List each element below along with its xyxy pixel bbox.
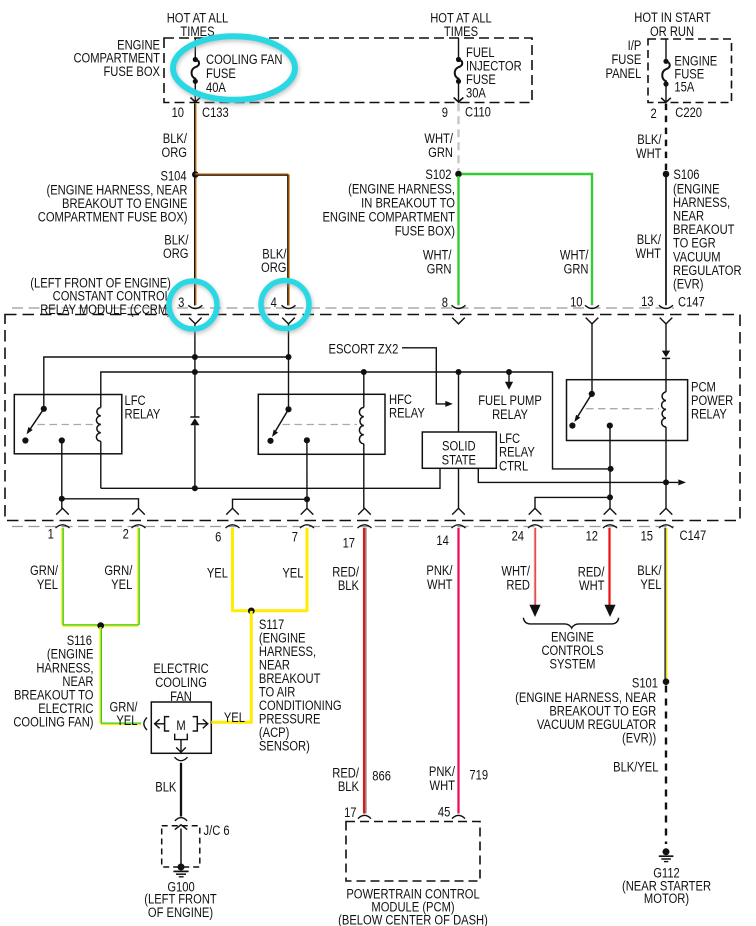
svg-text:RELAY: RELAY xyxy=(691,406,727,421)
HFC relay box xyxy=(258,394,385,454)
svg-text:J/C 6: J/C 6 xyxy=(204,823,230,838)
label RED/BLK (at PCM) xyxy=(332,765,359,794)
label LFC RELAY CTRL xyxy=(499,431,535,474)
I/P fuse panel box (dashed outline) xyxy=(648,39,732,103)
svg-text:PANEL: PANEL xyxy=(605,66,641,81)
HFC relay switch xyxy=(267,406,310,444)
junction HFC coil/bus2 xyxy=(361,369,367,375)
svg-text:15A: 15A xyxy=(674,79,694,94)
label GRN/YEL (pin 1) xyxy=(30,563,58,592)
label S101 xyxy=(632,675,658,690)
label S104 xyxy=(160,168,186,183)
svg-text:24: 24 xyxy=(512,528,524,543)
wire PNK/WHT pin 14 to PCM pin 45 xyxy=(457,528,459,814)
label S117 xyxy=(259,617,284,632)
svg-text:ESCORT ZX2: ESCORT ZX2 xyxy=(329,341,399,356)
svg-text:866: 866 xyxy=(372,768,391,783)
svg-text:FUSE: FUSE xyxy=(206,66,236,81)
label J/C 6 xyxy=(204,823,230,838)
label ELECTRIC COOLING FAN xyxy=(153,661,208,704)
wire BLK/YEL S101 to G112 (dashed) xyxy=(665,686,667,845)
label G112 description xyxy=(622,878,711,906)
svg-text:C110: C110 xyxy=(465,104,491,119)
fuel pump relay feed arrow xyxy=(505,372,513,390)
junction fuel-pump/bus2 xyxy=(506,369,512,375)
highlight circle (pin 4) xyxy=(261,281,309,329)
label S102 description xyxy=(322,181,455,238)
PCM pin 45 socket xyxy=(452,815,465,818)
svg-text:WHT: WHT xyxy=(636,246,662,261)
svg-text:RELAY: RELAY xyxy=(389,405,425,420)
svg-text:BLK: BLK xyxy=(338,578,360,593)
svg-text:RED: RED xyxy=(506,577,530,592)
svg-text:13: 13 xyxy=(641,294,653,309)
connector C147 pin 3 socket xyxy=(188,305,202,308)
wire YEL pin 6 to S117 xyxy=(231,528,234,612)
wire BLK/ORG S104 branch horizontal xyxy=(195,173,288,176)
svg-text:YEL: YEL xyxy=(207,566,228,581)
label PNK/WHT (pin 14) xyxy=(426,563,453,592)
label pin 6 xyxy=(215,530,221,545)
svg-text:14: 14 xyxy=(436,533,448,548)
node S116 xyxy=(97,622,104,629)
electric cooling fan box xyxy=(151,702,211,753)
svg-text:RELAY: RELAY xyxy=(125,406,161,421)
connector C147 pin 10 socket xyxy=(585,305,599,308)
label pin 8 xyxy=(442,295,448,310)
wire pin 4 into module xyxy=(288,324,290,409)
fuel injector fuse 30A xyxy=(454,38,464,102)
junction pin4/bus1 xyxy=(286,354,292,360)
svg-text:30A: 30A xyxy=(466,85,486,100)
connector C147 pin 14 terminal xyxy=(452,508,465,514)
svg-text:C147: C147 xyxy=(680,528,707,543)
wire BLK cooling fan to J/C 6 xyxy=(175,757,188,816)
ground G100 xyxy=(173,864,188,877)
svg-text:COOLING FAN: COOLING FAN xyxy=(206,52,282,67)
wire BLK/WHT C220 to S106 (dashed) xyxy=(665,104,667,171)
svg-text:CTRL: CTRL xyxy=(499,458,528,473)
connector C147 pin 3 terminal xyxy=(189,318,202,324)
label BLK/ORG (pin 4) xyxy=(261,246,287,275)
label HFC RELAY xyxy=(389,392,425,421)
PCM pin 17 socket xyxy=(358,815,371,818)
PCM power relay coil xyxy=(662,392,666,427)
label BLK/YEL (pin 15) xyxy=(637,563,662,592)
HFC relay coil xyxy=(359,372,363,444)
label pin 13 xyxy=(641,294,653,309)
svg-text:RELAY MODULE (CCRM): RELAY MODULE (CCRM) xyxy=(40,302,171,317)
solid state box U1 xyxy=(422,432,496,468)
svg-text:SENSOR): SENSOR) xyxy=(259,738,310,753)
label circuit 866 xyxy=(372,768,391,783)
label ESCORT ZX2 xyxy=(329,341,399,356)
junction pin24 branch xyxy=(607,494,613,500)
cooling fan left connector xyxy=(144,718,147,731)
svg-text:(EVR)): (EVR)) xyxy=(622,730,656,745)
wire HFC relay output to pins 6 and 7 xyxy=(233,440,308,508)
svg-text:3: 3 xyxy=(178,295,184,310)
label G100 xyxy=(167,879,194,894)
label pin 3 xyxy=(178,295,184,310)
label PCM POWER RELAY xyxy=(691,379,733,421)
wire WHT/RED pin 24 to engine controls xyxy=(529,528,540,617)
wire BLK/ORG C133 to S104 to pin 3 xyxy=(193,103,196,305)
connector C147 pin 6 socket xyxy=(226,525,240,528)
svg-text:ORG: ORG xyxy=(163,246,188,261)
PCM power relay switch xyxy=(569,391,613,429)
connector C147 pin 13 socket xyxy=(659,305,673,308)
svg-text:4: 4 xyxy=(271,295,277,310)
label circuit 719 xyxy=(469,767,488,782)
connector C147 pin 10 terminal xyxy=(586,318,599,324)
svg-text:10: 10 xyxy=(172,105,184,120)
label G100 description xyxy=(144,891,217,920)
label WHT/RED (pin 24) xyxy=(501,563,530,592)
svg-text:YEL: YEL xyxy=(282,566,303,581)
wire branch to pin 24 xyxy=(535,497,610,508)
label YEL (pin 7) xyxy=(282,566,303,581)
svg-text:TIMES: TIMES xyxy=(444,24,478,39)
ESCORT ZX2 callout arrow xyxy=(402,348,453,407)
label COOLING FAN FUSE 40A xyxy=(206,52,282,96)
svg-text:719: 719 xyxy=(469,767,488,782)
svg-text:GRN: GRN xyxy=(564,261,589,276)
wire BLK/ORG branch down to pin 4 xyxy=(287,175,290,306)
svg-text:YEL: YEL xyxy=(37,577,58,592)
label pin 4 xyxy=(271,295,277,310)
label pin 14 xyxy=(436,533,448,548)
HFC relay link (dashed) xyxy=(283,424,358,426)
label pin 9 C110 xyxy=(442,104,491,120)
label G112 xyxy=(653,865,680,880)
svg-text:17: 17 xyxy=(343,535,355,550)
connector C147 pin 14 socket xyxy=(452,525,466,528)
wire pin 13 to diode D2 xyxy=(665,324,667,351)
J/C 6 terminal and wire to ground xyxy=(175,825,187,867)
label LFC RELAY xyxy=(125,393,161,422)
label YEL (fan) xyxy=(224,710,245,725)
connector C147 pin 6 terminal xyxy=(226,508,239,514)
label PCM pin 17 xyxy=(344,805,356,820)
label I/P FUSE PANEL xyxy=(605,38,641,81)
label pin 2 xyxy=(123,526,129,541)
svg-text:S102: S102 xyxy=(425,167,451,182)
label HOT AT ALL TIMES (left) xyxy=(167,10,229,39)
wire BLK/YEL pin 15 to S101 xyxy=(665,528,666,679)
connector C147 pin 8 socket xyxy=(452,305,466,308)
svg-text:40A: 40A xyxy=(206,80,226,95)
LFC relay switch xyxy=(22,406,65,444)
svg-text:ORG: ORG xyxy=(261,260,286,275)
LFC relay box xyxy=(14,395,122,454)
label S102 xyxy=(425,167,451,182)
PCM power relay box xyxy=(567,380,688,441)
label PCM pin 45 xyxy=(438,804,450,819)
label S101 description xyxy=(515,690,656,746)
label SOLID STATE xyxy=(442,438,476,468)
wire solid state LFC RELAY CTRL output xyxy=(478,468,686,485)
label C147 (top) xyxy=(678,294,705,309)
label BLK/YEL (S101) xyxy=(613,759,658,774)
junction diode/coil-return bus xyxy=(192,485,198,491)
svg-text:S106: S106 xyxy=(673,167,699,182)
svg-text:S101: S101 xyxy=(632,675,658,690)
connector C147 pin 7 terminal xyxy=(301,508,314,514)
label WHT/GRN (pin 8) xyxy=(423,247,452,276)
svg-text:YEL: YEL xyxy=(640,577,661,592)
label pin 2 C220 xyxy=(650,105,702,121)
svg-text:YEL: YEL xyxy=(116,713,137,728)
label FUEL PUMP RELAY xyxy=(478,393,542,422)
connector C147 pin 15 terminal xyxy=(660,508,673,514)
node S117 xyxy=(248,608,255,615)
svg-text:M: M xyxy=(176,718,185,733)
svg-text:GRN: GRN xyxy=(428,145,453,160)
wire PCM coil to pin 15 xyxy=(665,427,667,508)
C147 connector line (top, gray dashed) xyxy=(12,307,674,309)
junction pin3/bus1 xyxy=(192,354,198,360)
connector C147 pin 24 socket xyxy=(528,525,542,528)
junction solid-state/bus2 xyxy=(456,369,462,375)
connector C147 pin 4 terminal xyxy=(282,318,295,324)
connector C147 pin 17 terminal xyxy=(358,508,371,514)
C147 connector line (bottom, gray dashed) xyxy=(12,526,674,528)
svg-text:OR RUN: OR RUN xyxy=(650,24,694,39)
connector C147 pin 8 terminal xyxy=(452,318,465,324)
wire WHT/GRN S102 to pin 8 xyxy=(457,176,459,305)
highlight circle (pin 3) xyxy=(169,281,217,329)
svg-text:FUSE BOX: FUSE BOX xyxy=(103,64,160,79)
label S116 description xyxy=(13,647,93,730)
connector C147 pin 1 socket xyxy=(56,525,70,528)
svg-text:WHT: WHT xyxy=(579,578,605,593)
svg-text:(EVR): (EVR) xyxy=(673,276,703,291)
diode D1 (clamp diode) xyxy=(190,417,199,425)
engine compartment fuse box (dashed outline) xyxy=(164,38,532,103)
bus wire 1 (switch supply) xyxy=(44,357,289,409)
label WHT/GRN (C110) xyxy=(424,131,453,160)
svg-text:SYSTEM: SYSTEM xyxy=(550,657,596,672)
svg-text:6: 6 xyxy=(215,530,221,545)
svg-text:C133: C133 xyxy=(202,105,229,120)
svg-text:9: 9 xyxy=(442,105,448,120)
svg-text:BLK: BLK xyxy=(155,779,177,794)
label pin 12 xyxy=(586,528,598,543)
junction pin3/bus2 xyxy=(192,369,198,375)
connector C147 pin 2 terminal xyxy=(132,508,145,514)
wire YEL S117 to cooling fan xyxy=(211,611,253,722)
node S106 xyxy=(663,171,670,178)
connector C147 pin 15 socket xyxy=(659,525,673,528)
svg-text:1: 1 xyxy=(48,526,54,541)
wire HFC coil to pin 17 xyxy=(363,444,365,509)
svg-text:COOLING FAN): COOLING FAN) xyxy=(13,715,93,730)
label ENGINE FUSE 15A xyxy=(674,53,717,94)
svg-text:FAN: FAN xyxy=(170,689,192,704)
label RED/BLK (pin 17) xyxy=(332,564,359,593)
svg-text:2: 2 xyxy=(650,106,656,121)
node S101 xyxy=(663,678,670,685)
connector C147 pin 2 socket xyxy=(132,525,146,528)
wire solid state output to pin 14 xyxy=(458,468,460,508)
J/C 6 socket xyxy=(175,818,187,821)
label pin 24 xyxy=(512,528,524,543)
svg-text:STATE: STATE xyxy=(442,452,476,467)
label pin 17 xyxy=(343,535,355,550)
wire RED/BLK pin 17 to PCM pin 17 xyxy=(364,528,366,814)
wire BLK/WHT S106 to pin 13 xyxy=(665,176,667,305)
wire diode to coil-return bus xyxy=(194,425,196,488)
diode D2 (PCM relay diode) xyxy=(662,351,670,359)
svg-text:10: 10 xyxy=(570,294,582,309)
LFC relay coil xyxy=(96,408,100,442)
wire pin 3 into module xyxy=(194,324,196,417)
engine controls system brace xyxy=(523,618,618,628)
svg-text:COMPARTMENT FUSE BOX): COMPARTMENT FUSE BOX) xyxy=(38,210,188,225)
svg-text:YEL: YEL xyxy=(111,577,132,592)
connector C147 pin 12 terminal xyxy=(604,508,617,514)
ground G112 xyxy=(659,848,674,861)
connector C147 pin 4 socket xyxy=(282,305,296,308)
node S102 xyxy=(455,171,462,178)
label pin 10 C133 xyxy=(172,105,229,121)
label pin 10 xyxy=(570,294,582,309)
svg-text:C220: C220 xyxy=(675,105,702,120)
label RED/WHT (pin 12) xyxy=(578,564,605,593)
J/C 6 junction box (dashed outline) xyxy=(162,826,200,867)
label GRN/YEL (fan) xyxy=(110,699,138,728)
label BLK/ORG (S104 feed) xyxy=(162,131,188,160)
svg-text:YEL: YEL xyxy=(224,710,245,725)
connector C147 pin 1 terminal xyxy=(56,508,69,514)
connector C147 pin 17 socket xyxy=(358,525,372,528)
connector C147 pin 13 terminal xyxy=(660,318,673,324)
label YEL (pin 6) xyxy=(207,566,228,581)
label pin 7 xyxy=(292,530,298,545)
label S117 description xyxy=(259,630,342,753)
svg-text:OF ENGINE): OF ENGINE) xyxy=(148,905,213,920)
label pin 1 xyxy=(48,526,54,541)
label BLK/WHT (C220) xyxy=(636,132,662,161)
wire PCM relay output to pin 12 xyxy=(609,426,611,509)
label BLK/WHT (pin 13) xyxy=(636,232,662,261)
PCM module box (dashed outline) xyxy=(346,822,480,882)
svg-text:45: 45 xyxy=(438,804,450,819)
junction pin1/pin2 branch xyxy=(59,496,65,502)
label S106 xyxy=(673,167,699,182)
wire WHT/GRN C110 to S102 (dashed) xyxy=(457,103,459,170)
svg-text:BLK: BLK xyxy=(338,779,360,794)
PCM relay link (dashed) xyxy=(586,408,659,410)
label FUEL INJECTOR FUSE 30A xyxy=(466,45,522,101)
coil-return bus to solid state xyxy=(101,468,440,488)
svg-text:GRN: GRN xyxy=(427,261,452,276)
wire YEL joining run xyxy=(233,609,308,612)
label S106 description xyxy=(673,181,742,292)
wire bus2 to solid state input xyxy=(458,372,460,432)
wire D2 to PCM relay coil xyxy=(665,358,667,392)
CCRM module box (dashed outline) xyxy=(5,315,740,521)
highlight ellipse (cooling fan fuse) xyxy=(173,36,295,100)
label PCM description xyxy=(338,886,488,926)
label PNK/WHT (at PCM) xyxy=(429,764,456,793)
connector C147 pin 12 socket xyxy=(603,525,617,528)
wire GRN/YEL pin 1 to S116 xyxy=(61,528,64,625)
label BLK (fan ground wire) xyxy=(155,779,177,794)
node S104 xyxy=(192,171,199,178)
svg-text:ORG: ORG xyxy=(162,145,187,160)
wire WHT/GRN S102 branch to pin 10 xyxy=(462,174,593,305)
junction ctrl/pin15 wire xyxy=(663,479,669,485)
wire GRN/YEL pin 2 to S116 xyxy=(137,528,140,625)
label HOT AT ALL TIMES (middle) xyxy=(430,10,492,39)
svg-text:C147: C147 xyxy=(678,294,705,309)
cooling fan fuse 40A xyxy=(190,38,200,102)
label GRN/YEL (pin 2) xyxy=(104,563,132,592)
svg-text:12: 12 xyxy=(586,528,598,543)
junction bus2-extension/pin12 wire xyxy=(608,466,614,472)
wire pin 10 to PCM relay switch xyxy=(591,324,593,394)
label CCRM description xyxy=(30,275,171,317)
label pin 15 xyxy=(641,528,653,543)
junction pin6/pin7 branch xyxy=(304,496,310,502)
svg-text:WHT: WHT xyxy=(636,146,662,161)
svg-text:7: 7 xyxy=(292,530,298,545)
label S104 description xyxy=(38,182,188,225)
svg-text:FUSE BOX): FUSE BOX) xyxy=(395,223,455,238)
wire GRN/YEL joining run xyxy=(63,624,139,627)
label BLK/ORG (pin 3) xyxy=(163,232,189,261)
label ENGINE COMPARTMENT FUSE BOX xyxy=(73,37,160,79)
bus wire 2 (coil supply) xyxy=(101,372,611,469)
label S116 xyxy=(67,633,92,648)
svg-text:(BELOW CENTER OF DASH): (BELOW CENTER OF DASH) xyxy=(338,912,488,926)
wire RED/WHT pin 12 to engine controls xyxy=(604,528,615,617)
svg-text:17: 17 xyxy=(344,805,356,820)
svg-text:2: 2 xyxy=(123,526,129,541)
wire LFC coil to return bus xyxy=(100,441,102,488)
LFC relay link (dashed) xyxy=(38,424,96,426)
motor M1 (cooling fan motor) xyxy=(155,717,208,753)
connector C147 pin 24 terminal xyxy=(529,508,542,514)
wire YEL pin 7 to S117 xyxy=(306,528,309,612)
svg-text:8: 8 xyxy=(442,295,448,310)
svg-text:MOTOR): MOTOR) xyxy=(644,891,689,906)
svg-text:15: 15 xyxy=(641,528,653,543)
svg-text:WHT: WHT xyxy=(427,577,453,592)
svg-text:BLK/YEL: BLK/YEL xyxy=(613,759,658,774)
wire GRN/YEL S116 to cooling fan xyxy=(101,627,142,724)
connector C147 pin 7 socket xyxy=(300,525,314,528)
label WHT/GRN (pin 10) xyxy=(560,247,589,276)
engine fuse 15A xyxy=(661,39,671,102)
svg-text:WHT: WHT xyxy=(430,778,456,793)
label HOT IN START OR RUN xyxy=(634,10,711,39)
label ENGINE CONTROLS SYSTEM xyxy=(541,630,603,672)
label C147 (bottom) xyxy=(680,528,707,543)
wire LFC relay output to pins 1 and 2 xyxy=(62,441,139,509)
svg-text:RELAY: RELAY xyxy=(492,407,528,422)
